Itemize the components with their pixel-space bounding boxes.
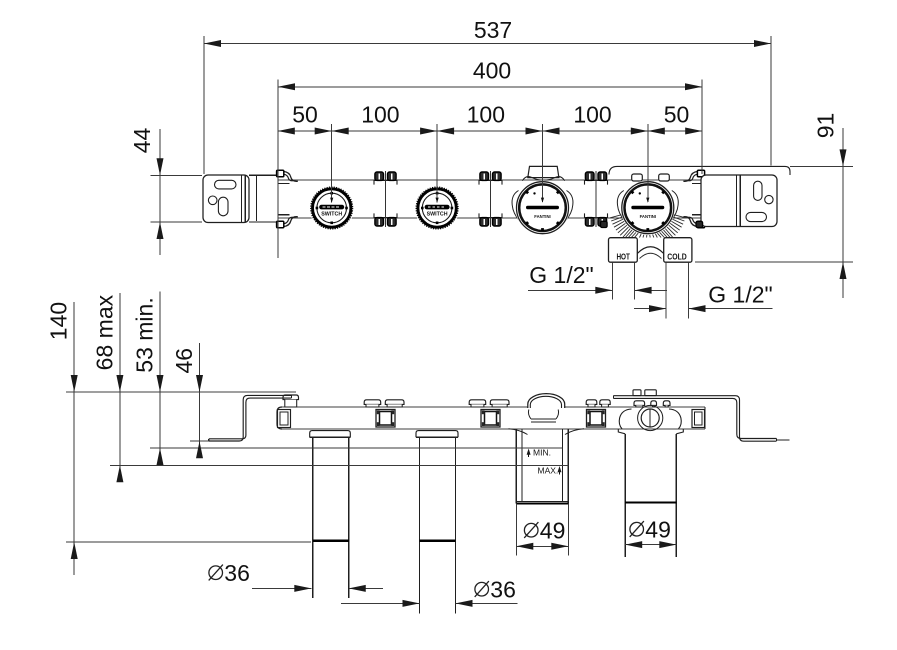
svg-text:46: 46 — [171, 348, 197, 374]
svg-text:100: 100 — [573, 101, 611, 127]
svg-text:SWITCH: SWITCH — [427, 211, 448, 217]
svg-text:50: 50 — [292, 101, 318, 127]
svg-text:G 1/2": G 1/2" — [529, 262, 593, 288]
svg-text:537: 537 — [474, 17, 512, 43]
svg-text:68 max: 68 max — [92, 294, 118, 370]
svg-text:HOT: HOT — [616, 252, 630, 261]
svg-text:44: 44 — [129, 128, 155, 154]
svg-text:36: 36 — [224, 560, 250, 586]
svg-text:100: 100 — [361, 101, 399, 127]
svg-text:FANTINI: FANTINI — [534, 214, 550, 219]
svg-text:G 1/2": G 1/2" — [708, 282, 772, 308]
svg-text:100: 100 — [467, 101, 505, 127]
svg-text:400: 400 — [473, 57, 511, 83]
svg-text:MIN.: MIN. — [533, 448, 551, 458]
svg-text:49: 49 — [540, 518, 566, 544]
svg-text:MAX.: MAX. — [538, 466, 559, 476]
svg-text:140: 140 — [46, 302, 72, 340]
svg-text:49: 49 — [645, 517, 671, 543]
svg-text:50: 50 — [664, 101, 690, 127]
svg-text:SWITCH: SWITCH — [321, 211, 342, 217]
svg-text:91: 91 — [813, 113, 839, 139]
svg-text:COLD: COLD — [667, 252, 687, 261]
svg-text:53 min.: 53 min. — [132, 297, 158, 372]
svg-text:FANTINI: FANTINI — [640, 214, 656, 219]
svg-text:36: 36 — [490, 577, 516, 603]
